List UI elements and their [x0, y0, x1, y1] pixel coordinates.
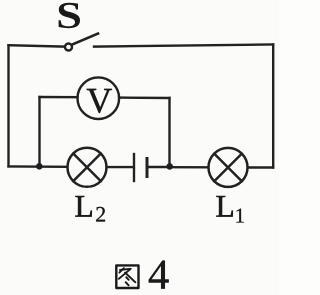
wire top-right segment — [94, 45, 273, 47]
node B junction dot — [166, 163, 173, 170]
wire right side — [272, 45, 274, 168]
wire bottom-right segment — [249, 166, 274, 168]
switch S blade — [72, 34, 98, 45]
wire voltmeter row left — [40, 96, 78, 99]
wire L2 to battery — [107, 166, 133, 168]
label L2 — [75, 196, 91, 217]
label V (voltmeter face) — [87, 89, 112, 113]
battery long plate — [133, 154, 135, 181]
label S — [59, 3, 80, 28]
wire voltmeter row right — [119, 96, 169, 99]
lamp L1 — [209, 148, 248, 187]
wire battery to node B — [149, 166, 170, 168]
wire voltmeter branch left vertical — [38, 97, 40, 166]
wire voltmeter branch right vertical — [168, 98, 170, 165]
label L1 subscript — [236, 209, 243, 223]
wire bottom-left segment — [9, 165, 67, 168]
wire node B to L1 — [170, 166, 209, 169]
label figure character tu (drawn box radical) — [116, 265, 138, 288]
label L2 subscript — [96, 207, 105, 222]
battery short plate — [146, 159, 149, 177]
switch S pivot — [65, 44, 72, 51]
node A junction dot — [36, 163, 43, 170]
voltmeter V circle — [78, 77, 120, 119]
wire top-left segment — [9, 45, 64, 46]
lamp L2 — [68, 148, 107, 187]
wire left side — [7, 45, 9, 166]
label L1 — [216, 196, 232, 217]
label figure number 4 — [149, 261, 169, 289]
